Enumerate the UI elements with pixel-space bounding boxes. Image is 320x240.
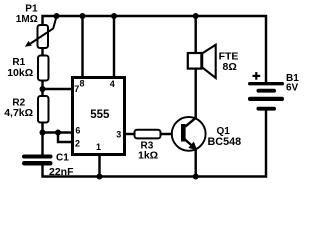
- capacitor C1 plate bottom: [22, 161, 53, 166]
- speaker FTE box: [188, 53, 202, 69]
- wire R1 bottom to R2 top: [41, 81, 43, 97]
- wire R3 to Q1 base: [160, 133, 183, 135]
- transistor Q1 base bar: [181, 124, 186, 142]
- potentiometer P1 body: [38, 25, 49, 48]
- svg-text:P1: P1: [25, 4, 38, 15]
- capacitor C1 plate top: [22, 155, 53, 159]
- svg-text:22nF: 22nF: [49, 166, 74, 178]
- wire R2 bottom to node: [41, 123, 43, 137]
- wire Q1 emitter to bottom rail: [194, 150, 196, 177]
- wire pin 6: [43, 131, 74, 133]
- resistor R3: [135, 130, 161, 139]
- battery B1 plate long middle: [248, 97, 284, 101]
- node emitter / bottom rail: [193, 174, 199, 180]
- potentiometer P1 wiper arrow: [25, 17, 57, 47]
- svg-text:10kΩ: 10kΩ: [7, 67, 33, 79]
- IC 555 timer U1: [73, 78, 125, 155]
- node pin4 / top rail: [111, 13, 117, 19]
- battery B1 plate long top: [248, 82, 284, 85]
- wire speaker to Q1 collector: [194, 68, 196, 118]
- svg-text:4,7kΩ: 4,7kΩ: [4, 107, 33, 119]
- node junction dots: [40, 13, 199, 180]
- wire pin 4: [113, 16, 115, 77]
- wire P1 to R1: [41, 48, 43, 56]
- wire pin 1 to ground rail: [98, 155, 100, 177]
- wire pin 8: [81, 16, 83, 77]
- svg-text:8: 8: [80, 79, 85, 89]
- svg-text:4: 4: [110, 79, 115, 89]
- svg-text:C1: C1: [56, 152, 69, 163]
- svg-text:1MΩ: 1MΩ: [16, 14, 38, 25]
- svg-text:555: 555: [90, 109, 110, 121]
- svg-text:BC548: BC548: [208, 136, 242, 148]
- wire node to C1: [41, 136, 43, 155]
- svg-text:1: 1: [96, 142, 101, 152]
- wire P1 stub, top rail, right rail to battery +: [43, 16, 267, 83]
- svg-text:6: 6: [75, 126, 80, 136]
- svg-text:2: 2: [75, 139, 80, 149]
- svg-text:3: 3: [116, 130, 121, 140]
- battery B1 plate short: [257, 89, 277, 93]
- node R1-R2-pin7: [40, 86, 46, 92]
- battery plus sign: [253, 72, 261, 80]
- transistor Q1 circle: [172, 117, 206, 151]
- speaker FTE cone: [202, 45, 216, 78]
- node R2-C1-pin6: [40, 130, 46, 136]
- wire pin 3 to R3: [125, 133, 135, 135]
- node pin8 / top rail: [80, 13, 86, 19]
- resistor R2: [38, 96, 49, 123]
- svg-text:7: 7: [74, 84, 79, 94]
- battery B1 plate short bottom: [257, 107, 277, 111]
- node pin1 / bottom rail: [97, 174, 103, 180]
- transistor Q1 collector stroke: [185, 117, 196, 126]
- node P1 wiper / top rail: [54, 13, 60, 19]
- svg-text:8Ω: 8Ω: [223, 61, 237, 73]
- svg-text:6V: 6V: [286, 83, 299, 94]
- resistor R1: [38, 56, 49, 81]
- wire speaker top: [194, 16, 196, 54]
- wire pin 2: [58, 133, 73, 143]
- transistor Q1 emitter stroke with arrow: [185, 140, 194, 148]
- wire pin 7: [43, 88, 74, 90]
- wire C1 bottom stub, bottom rail, battery - stub: [43, 110, 267, 176]
- svg-text:1kΩ: 1kΩ: [138, 150, 158, 162]
- node speaker / top rail: [193, 13, 199, 19]
- node pin6-pin2: [55, 130, 61, 136]
